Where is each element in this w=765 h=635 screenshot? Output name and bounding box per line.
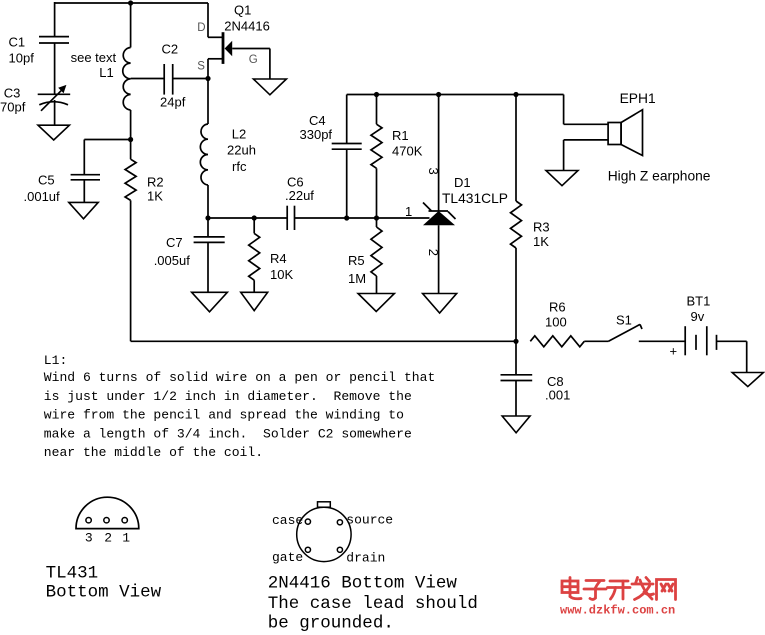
svg-text:see text: see text [71,50,117,65]
wire top rail left (C1 top to Q1 drain) [55,2,208,4]
svg-text:R3: R3 [533,220,550,235]
svg-text:2: 2 [104,530,112,545]
svg-text:EPH1: EPH1 [620,91,656,106]
resistor R5 [376,218,378,227]
svg-text:R5: R5 [348,253,365,268]
ground gate [253,79,286,95]
node top-left junction [128,0,133,5]
2N4416 drain pin [337,547,342,552]
ground under C5 [69,202,98,218]
svg-text:.22uf: .22uf [285,188,314,203]
svg-text:L1:: L1: [44,353,68,368]
TL431 pin 1 hole [122,518,127,523]
svg-text:Bottom View: Bottom View [46,583,162,603]
svg-text:TL431CLP: TL431CLP [442,191,508,206]
svg-text:2N4416 Bottom View: 2N4416 Bottom View [268,574,458,594]
node bottom junction [513,339,518,344]
capacitor C8 [515,341,517,375]
svg-text:1K: 1K [533,234,549,249]
wire C2 to S node [173,78,208,80]
2N4416 source pin [337,520,342,525]
wire R2 to bottom rail [130,200,132,341]
svg-text:case: case [272,513,303,528]
svg-text:High Z earphone: High Z earphone [608,168,711,183]
svg-text:wire from the pencil and sprea: wire from the pencil and spread the wind… [44,408,404,423]
svg-text:24pf: 24pf [160,94,186,109]
ground under D1 [423,294,457,314]
svg-text:10pf: 10pf [9,50,35,65]
C3 arrow [41,90,62,111]
capacitor C3 variable [38,93,70,95]
wire L1 tap to C2 [131,78,165,80]
ground battery [732,373,763,387]
inductor L1 [130,3,132,48]
TL431 pin 3 hole [86,518,91,523]
svg-text:10K: 10K [270,267,293,282]
svg-text:TL431: TL431 [46,564,99,584]
inductor L2 [207,79,209,125]
resistor R4 [253,218,255,233]
svg-text:source: source [346,513,393,528]
svg-text:C4: C4 [309,113,326,128]
capacitor C1 [54,2,56,37]
node L2-C7 junction [205,215,210,220]
svg-text:BT1: BT1 [687,294,711,309]
svg-text:make a length of 3/4 inch. So: make a length of 3/4 inch. Solder C2 som… [44,426,412,441]
svg-text:The case lead should: The case lead should [268,594,478,614]
diode D1 TL431 [438,95,440,212]
svg-text:R6: R6 [549,299,566,314]
ground under C7 [192,292,228,312]
svg-text:2N4416: 2N4416 [224,19,270,34]
svg-text:Q1: Q1 [234,3,251,18]
capacitor C4 [346,95,348,144]
node R4 junction [252,215,257,220]
wire C6 to D1 pin1 [295,217,430,219]
node R3 top junction [513,92,518,97]
svg-text:C1: C1 [9,34,26,49]
node R1 top junction [374,92,379,97]
Q1 gate arrow [225,41,233,56]
transistor Q1 2N4416 [208,36,223,38]
node C4 junction [344,215,349,220]
svg-text:1: 1 [122,530,130,545]
capacitor C7 [207,218,209,237]
svg-text:Wind 6 turns of solid wire on: Wind 6 turns of solid wire on a pen or p… [44,370,435,385]
capacitor C6 [286,206,288,230]
node R1-R5 junction [374,215,379,220]
svg-text:L1: L1 [99,65,113,80]
TL431 pin 2 hole [104,518,109,523]
svg-text:S1: S1 [616,313,632,328]
svg-text:C7: C7 [166,235,183,250]
ground under R4 [241,292,268,310]
capacitor C5 [83,140,85,175]
capacitor C2 [163,64,165,95]
svg-text:.001: .001 [545,387,570,402]
svg-text:1M: 1M [348,271,366,286]
svg-text:www.dzkfw.com.cn: www.dzkfw.com.cn [560,603,675,617]
svg-text:D1: D1 [454,175,471,190]
svg-text:D: D [197,22,205,34]
svg-text:C5: C5 [38,173,55,188]
svg-text:470K: 470K [392,144,423,159]
svg-text:.001uf: .001uf [24,189,61,204]
svg-text:1K: 1K [147,188,163,203]
2N4416 case pin [305,519,310,524]
svg-text:rfc: rfc [232,159,247,174]
svg-text:3: 3 [85,530,93,545]
svg-text:G: G [249,54,258,66]
svg-text:R1: R1 [392,128,409,143]
wire node row L2 to C6 [208,217,287,219]
wire bottom rail [131,340,516,342]
svg-text:be grounded.: be grounded. [268,613,394,633]
svg-text:1: 1 [405,204,412,219]
svg-text:near the middle of the coil.: near the middle of the coil. [44,445,263,460]
svg-text:L2: L2 [232,126,246,141]
svg-text:is just under 1/2 inch in diam: is just under 1/2 inch in diameter. Remo… [44,389,412,404]
resistor R1 [376,95,378,125]
ground under C8 [502,416,530,433]
node L1-R2 junction [128,137,133,142]
watermark logo strokes [562,578,676,600]
svg-text:gate: gate [272,550,303,565]
switch S1 [609,324,641,341]
svg-text:R4: R4 [270,251,287,266]
2N4416 gate pin [305,547,310,552]
resistor R2 [130,140,132,160]
node S junction [205,76,210,81]
earphone EPH1 [563,95,565,125]
svg-text:330pf: 330pf [300,127,333,142]
svg-text:70pf: 70pf [0,99,26,114]
svg-text:C2: C2 [162,42,179,57]
svg-text:S: S [197,60,205,72]
svg-text:3: 3 [426,168,441,175]
wire C5 branch [84,139,130,141]
wire gate [232,48,270,50]
svg-text:+: + [670,344,678,359]
ground under C3 [38,125,69,140]
wire top rail mid (C4 to earphone) [347,94,564,96]
node D1 top junction [436,92,441,97]
svg-text:9v: 9v [691,309,705,324]
svg-text:drain: drain [346,551,385,566]
wire Q1 drain vertical [207,3,209,37]
resistor R6 [530,336,584,347]
TL431 bottom view package [76,497,139,528]
svg-text:100: 100 [545,315,567,330]
svg-text:2: 2 [426,249,441,256]
svg-text:22uh: 22uh [227,142,256,157]
svg-text:C3: C3 [4,86,21,101]
svg-text:.005uf: .005uf [154,253,191,268]
battery BT1 [684,326,686,355]
svg-text:R2: R2 [147,175,164,190]
ground under earphone [546,171,578,186]
2N4416 bottom view package [297,507,351,561]
ground under R5 [358,294,394,312]
resistor R3 [515,95,517,202]
